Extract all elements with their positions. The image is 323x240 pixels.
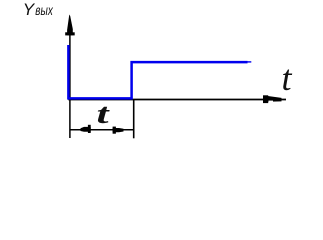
svg-text:t: t (282, 58, 293, 98)
dimension line (70, 129, 134, 131)
Y axis arrow crossbar tick (65, 32, 75, 35)
left dimension arrow tick (88, 125, 91, 133)
waveform (blue step signal) (68, 45, 247, 98)
Y axis shaft / left extension line (69, 30, 71, 138)
wire: thin tail at end of upper step (247, 61, 252, 63)
right dimension arrowhead (points right) (113, 128, 124, 132)
right extension line (133, 99, 135, 138)
t axis arrowhead (263, 95, 268, 103)
svg-text:Y: Y (23, 0, 36, 19)
svg-text:вых: вых (35, 2, 53, 18)
right dimension arrow tick (113, 127, 116, 134)
left dimension arrowhead (points left) (81, 127, 91, 132)
svg-text:t: t (97, 97, 111, 129)
Y axis arrowhead (67, 15, 73, 36)
t axis (68, 99, 286, 101)
